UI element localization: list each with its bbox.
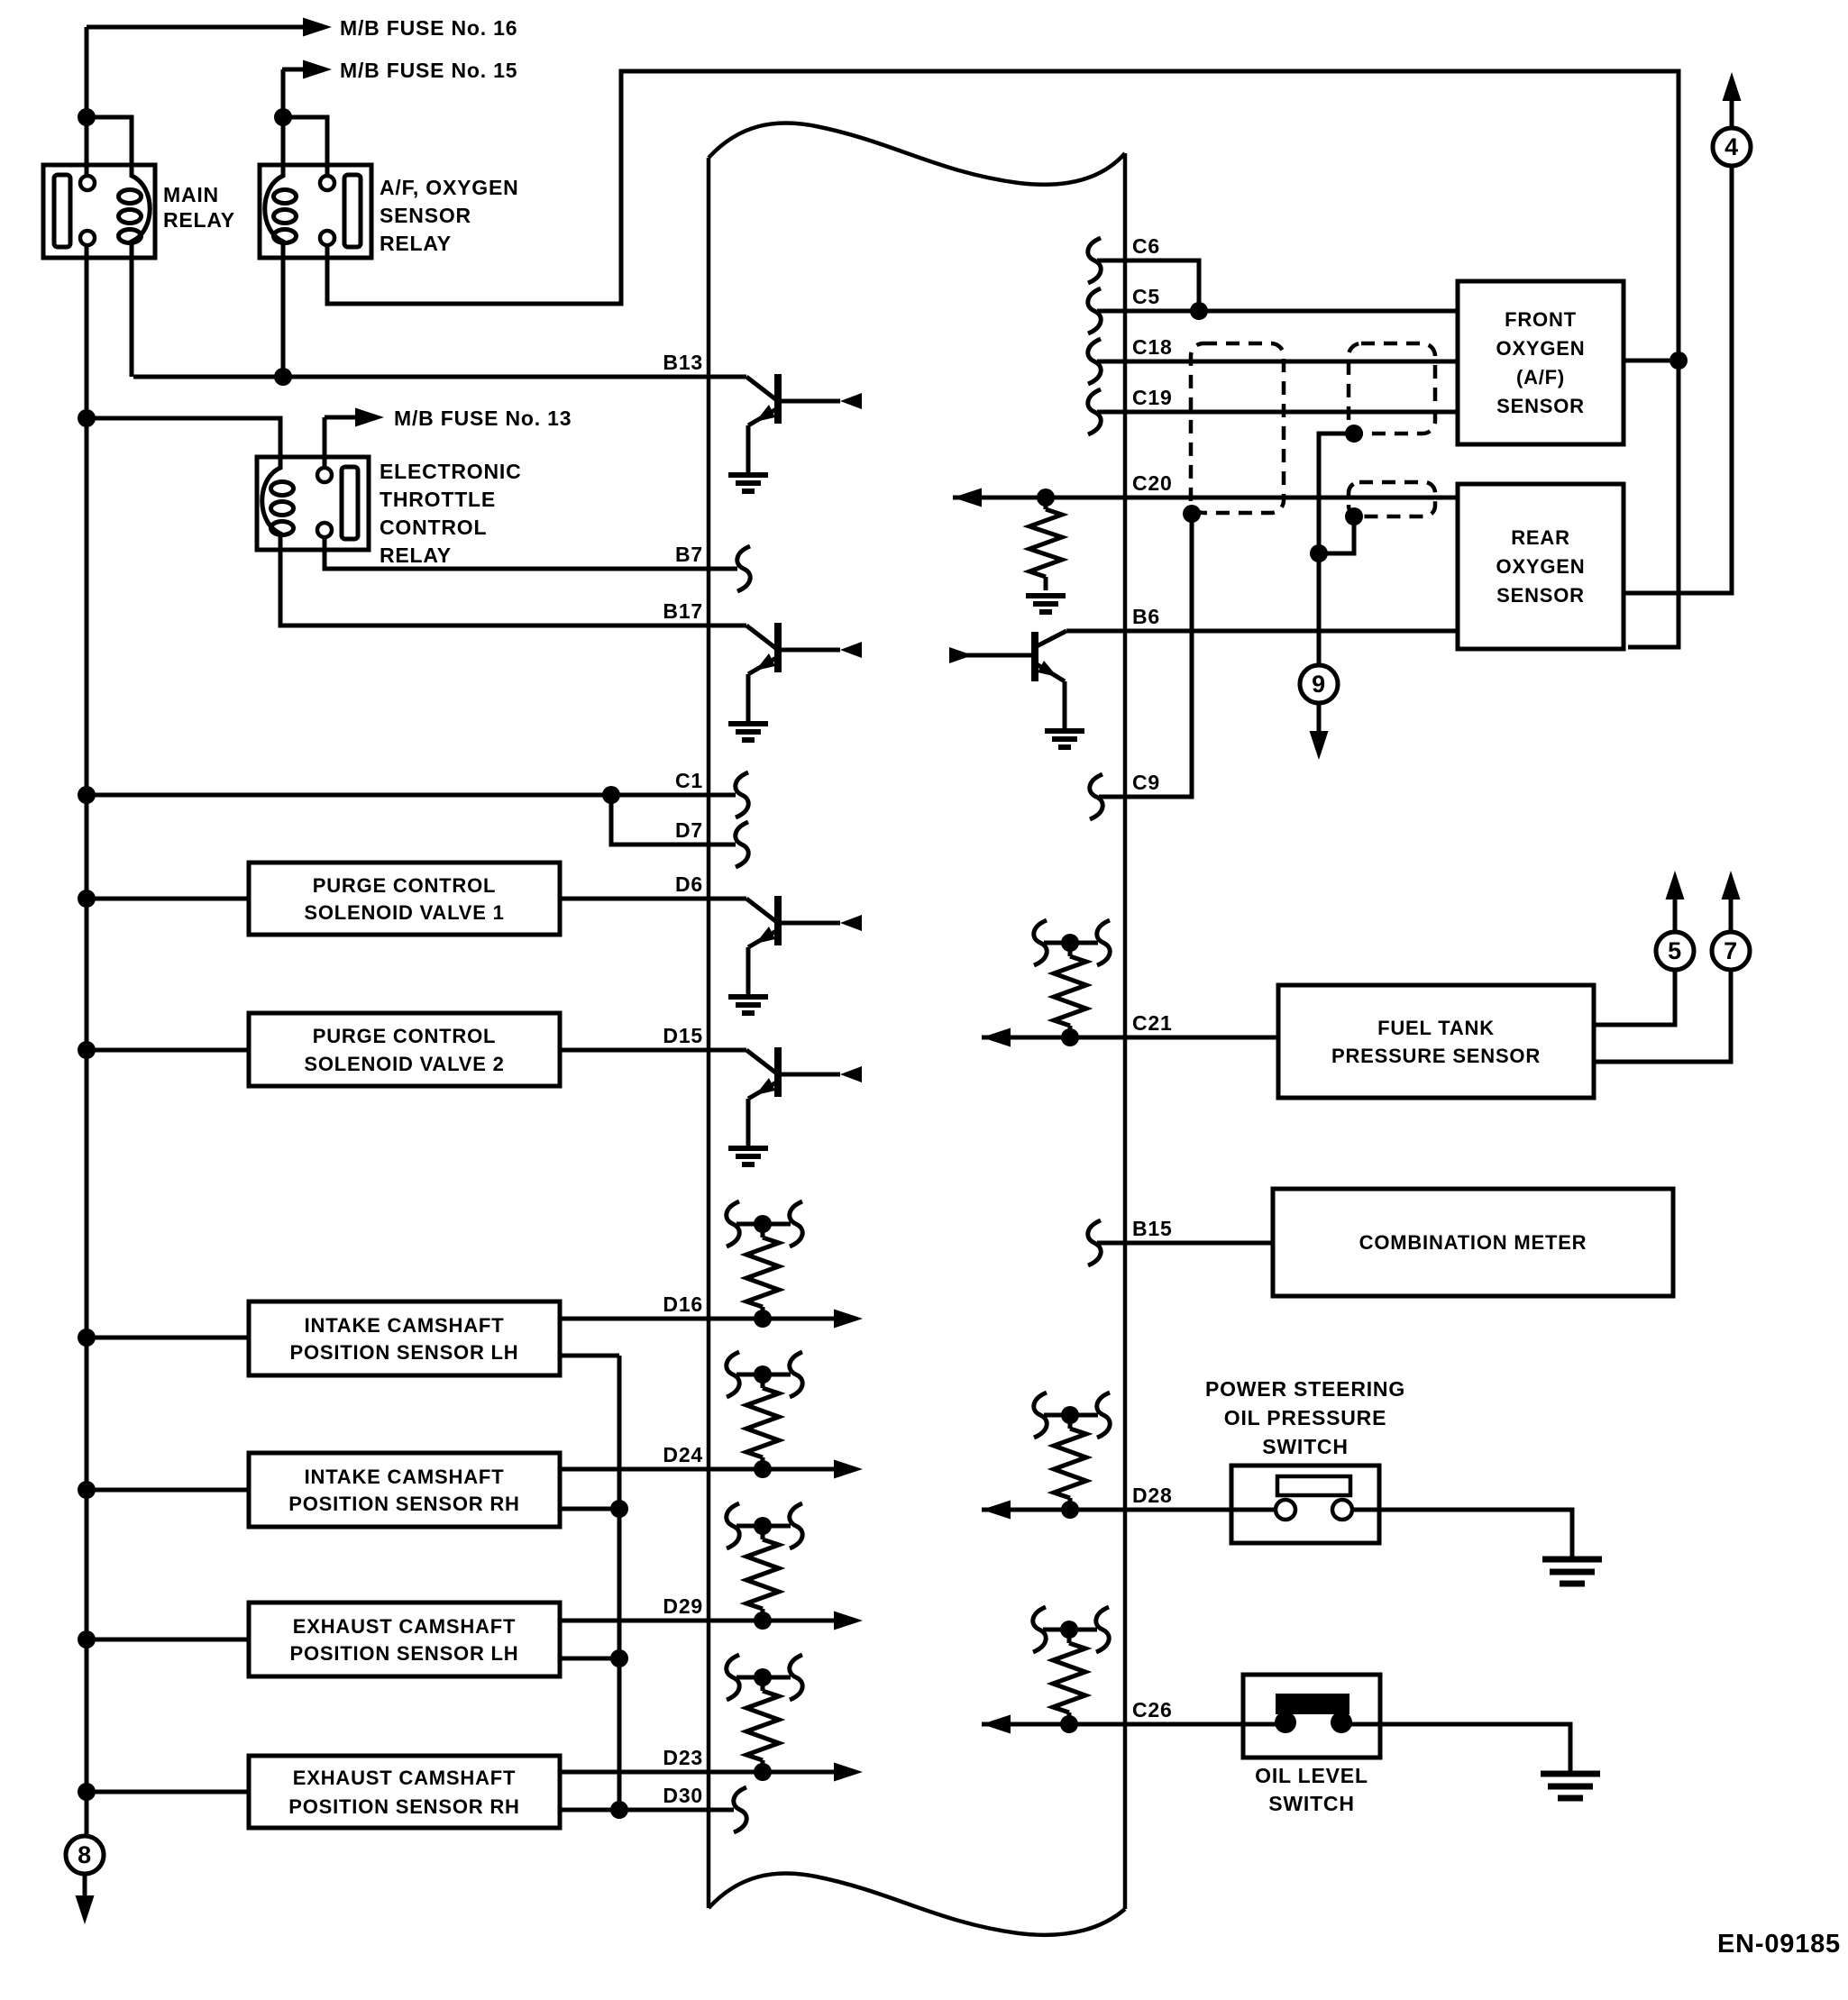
break C18 (1088, 339, 1101, 384)
junction bus/purge1 (78, 890, 96, 908)
junction C20/resistor (1037, 489, 1055, 507)
wire bus to exhaust camshaft RH (87, 1790, 249, 1795)
relay K1 MAIN RELAY box (43, 165, 155, 258)
wire B17 ETC coil to ECM (280, 534, 746, 626)
ground at oil level switch (1541, 1774, 1600, 1798)
svg-text:SWITCH: SWITCH (1268, 1792, 1355, 1815)
ground at C20 pulldown (1026, 596, 1066, 612)
svg-text:SOLENOID VALVE 2: SOLENOID VALVE 2 (304, 1053, 504, 1075)
break C5 (1088, 288, 1101, 333)
arrowhead ref7 (1722, 871, 1741, 900)
wire C20 to rear oxygen sensor (953, 496, 1458, 500)
ground at transistor Q4 (D15 driver) (728, 1148, 768, 1164)
wire intake LH return (560, 1354, 619, 1358)
wire front sensor heater supply (1624, 359, 1679, 363)
ECM boundary left (707, 158, 711, 1908)
resistor pull-up at D16 (727, 1201, 802, 1328)
wire left power bus (85, 27, 89, 1836)
transistor Q5 (B6 input, mirrored) (949, 631, 1066, 731)
svg-text:SOLENOID VALVE 1: SOLENOID VALVE 1 (304, 901, 504, 924)
svg-text:C18: C18 (1132, 335, 1173, 359)
arrowhead D24 (834, 1460, 863, 1479)
svg-text:C19: C19 (1132, 386, 1173, 409)
wire bus to intake camshaft RH (87, 1488, 249, 1493)
relay K3 ELECTRONIC THROTTLE CONTROL RELAY coil (262, 457, 280, 550)
arrowhead fuse16 (303, 18, 332, 37)
wire main relay coil to B13 (130, 258, 134, 377)
wire exhaust LH return (560, 1657, 619, 1661)
arrowhead C20 (953, 489, 982, 507)
svg-text:OIL PRESSURE: OIL PRESSURE (1224, 1406, 1386, 1429)
transistor Q2 (B17 driver) (746, 623, 862, 724)
svg-text:EXHAUST CAMSHAFT: EXHAUST CAMSHAFT (293, 1615, 516, 1638)
svg-text:PURGE CONTROL: PURGE CONTROL (313, 1025, 497, 1047)
arrowhead ref4 (1723, 72, 1742, 101)
wire D6 to ECM (560, 897, 746, 901)
junction A/F relay feed (274, 108, 292, 126)
svg-text:PRESSURE SENSOR: PRESSURE SENSOR (1331, 1045, 1541, 1067)
wire main relay coil feed (87, 117, 132, 165)
svg-text:INTAKE CAMSHAFT: INTAKE CAMSHAFT (305, 1314, 505, 1337)
junction bus/intake LH (78, 1329, 96, 1347)
wire A/F coil to B13 (281, 258, 286, 377)
svg-text:EXHAUST CAMSHAFT: EXHAUST CAMSHAFT (293, 1767, 516, 1789)
wire C26 to oil level switch (982, 1722, 1243, 1727)
svg-text:B17: B17 (663, 599, 703, 623)
svg-text:A/F, OXYGEN: A/F, OXYGEN (380, 176, 519, 199)
svg-text:PURGE CONTROL: PURGE CONTROL (313, 874, 497, 897)
svg-text:B13: B13 (663, 351, 703, 374)
wire bus to exhaust camshaft LH (87, 1638, 249, 1642)
wire bus to purge valve 2 (87, 1048, 249, 1053)
box COMBINATION METER (1273, 1189, 1673, 1296)
ECM boundary top wave (709, 123, 1125, 184)
wire sensor return bus (618, 1356, 622, 1810)
svg-text:OXYGEN: OXYGEN (1496, 555, 1586, 578)
svg-text:8: 8 (78, 1841, 92, 1868)
wire bus to purge valve 1 (87, 897, 249, 901)
relay K2 A/F OXYGEN SENSOR RELAY box (260, 165, 371, 258)
wire A/F relay coil feed (281, 69, 286, 165)
svg-text:(A/F): (A/F) (1516, 366, 1565, 388)
arrowhead D23 (834, 1763, 863, 1782)
box PURGE CONTROL SOLENOID VALVE 2 (249, 1013, 560, 1086)
transistor Q1 (B13 driver) (746, 374, 862, 475)
svg-text:D29: D29 (663, 1594, 703, 1618)
ground at transistor Q1 (B13 driver) (728, 475, 768, 491)
arrowhead fuse15 (303, 60, 332, 79)
wire to M/B fuse 15 (282, 68, 304, 72)
wire fuse 13 stub (325, 416, 357, 420)
svg-text:C20: C20 (1132, 471, 1173, 495)
svg-text:D6: D6 (675, 872, 703, 896)
svg-text:C1: C1 (675, 769, 703, 792)
svg-text:SWITCH: SWITCH (1262, 1435, 1349, 1458)
svg-text:POWER STEERING: POWER STEERING (1205, 1377, 1405, 1401)
svg-text:5: 5 (1668, 937, 1682, 964)
box EXHAUST CAMSHAFT POSITION SENSOR LH (249, 1603, 560, 1676)
page reference circle 9 shield ground (1300, 665, 1338, 703)
wire B13 to ECM (133, 375, 746, 379)
wire arrow stub ref4 (1730, 101, 1734, 127)
ground at transistor Q3 (D6 driver) (728, 997, 768, 1013)
ECM boundary bottom wave (709, 1873, 1125, 1934)
ground at transistor Q5 (1045, 731, 1084, 747)
break C1 (736, 772, 748, 817)
resistor pull-up at C26 (1033, 1607, 1109, 1733)
relay K1 MAIN RELAY coil (132, 165, 150, 258)
svg-text:C26: C26 (1132, 1698, 1173, 1721)
shield dashed box C18/C19 sensor side (1349, 343, 1435, 434)
wire bus to intake camshaft LH (87, 1336, 249, 1340)
box FRONT OXYGEN (A/F) SENSOR (1458, 281, 1624, 444)
junction bus/C1 (78, 786, 96, 804)
wire A/F contact to sensors supply (327, 71, 1679, 647)
wire D28 to power steering switch (982, 1508, 1231, 1512)
relay K2 A/F OXYGEN SENSOR RELAY coil (265, 165, 283, 258)
svg-text:C5: C5 (1132, 285, 1160, 308)
arrowhead ref9 (1310, 731, 1329, 760)
wire C5 to front oxygen sensor (1097, 309, 1458, 314)
resistor C20 pulldown (1029, 509, 1062, 577)
svg-text:M/B FUSE No. 16: M/B FUSE No. 16 (340, 16, 517, 40)
relay K2 A/F OXYGEN SENSOR RELAY contact (344, 175, 361, 247)
relay K3 ELECTRONIC THROTTLE CONTROL RELAY contact (342, 467, 358, 539)
svg-text:THROTTLE: THROTTLE (380, 488, 496, 511)
ground at transistor Q2 (B17 driver) (728, 724, 768, 740)
wire C6 stub (1097, 260, 1199, 311)
junction bus/ETC (78, 409, 96, 427)
wire D16 signal (560, 1317, 837, 1321)
svg-text:B7: B7 (675, 543, 703, 566)
resistor pull-up at C21 (1034, 920, 1110, 1046)
transistor Q4 (D15 driver) (746, 1047, 862, 1148)
wire B6 to rear oxygen sensor (1066, 629, 1458, 634)
wire C18 to front oxygen sensor (1097, 360, 1458, 364)
break B7 (737, 546, 750, 591)
box INTAKE CAMSHAFT POSITION SENSOR RH (249, 1453, 560, 1527)
ECM boundary right (1123, 153, 1128, 1909)
svg-text:POSITION SENSOR RH: POSITION SENSOR RH (288, 1493, 519, 1515)
wire shield drain C9 (1099, 514, 1192, 797)
svg-text:M/B FUSE No. 15: M/B FUSE No. 15 (340, 59, 517, 82)
wire D24 signal (560, 1467, 837, 1472)
break C6 (1088, 238, 1101, 283)
svg-text:C21: C21 (1132, 1011, 1173, 1035)
junction return/D30 (610, 1801, 628, 1819)
svg-text:CONTROL: CONTROL (380, 516, 487, 539)
junction shield D (1310, 544, 1328, 562)
wire ETC contact to fuse 13 (323, 417, 327, 468)
page reference circle 7 sensor ground ref (1712, 932, 1750, 970)
junction return/exhaust LH (610, 1649, 628, 1667)
wire rear sensor to page 4 (1624, 167, 1732, 593)
svg-text:D23: D23 (663, 1746, 703, 1769)
wire D15 to ECM (560, 1048, 746, 1053)
svg-text:RELAY: RELAY (380, 543, 452, 567)
junction B13 (274, 368, 292, 386)
svg-text:D7: D7 (675, 818, 703, 842)
wire fuel sensor to ref 5 (1594, 971, 1675, 1025)
junction shield A (1183, 505, 1201, 523)
box REAR OXYGEN SENSOR (1458, 484, 1624, 649)
arrowhead D28 (982, 1501, 1011, 1520)
resistor pull-up at D28 (1034, 1393, 1110, 1519)
page reference circle 5 sensor supply ref (1656, 932, 1694, 970)
svg-text:D15: D15 (663, 1024, 703, 1047)
svg-text:4: 4 (1724, 133, 1739, 160)
resistor pull-up at D23 (727, 1655, 802, 1781)
svg-text:POSITION SENSOR RH: POSITION SENSOR RH (288, 1795, 519, 1818)
svg-text:C6: C6 (1132, 234, 1160, 258)
wire arrow stub ref7 (1729, 900, 1734, 931)
svg-text:9: 9 (1312, 671, 1326, 698)
box FUEL TANK PRESSURE SENSOR (1278, 985, 1594, 1098)
junction shield B (1345, 425, 1363, 443)
box INTAKE CAMSHAFT POSITION SENSOR LH (249, 1301, 560, 1375)
svg-text:FUEL TANK: FUEL TANK (1377, 1017, 1495, 1039)
svg-text:B15: B15 (1132, 1217, 1173, 1240)
break D30 (734, 1787, 746, 1832)
svg-text:RELAY: RELAY (163, 208, 235, 232)
wire to ground ref 9 (1317, 704, 1322, 732)
svg-text:7: 7 (1724, 937, 1738, 964)
svg-text:M/B FUSE No. 13: M/B FUSE No. 13 (394, 406, 572, 430)
wire oil level switch to ground (1380, 1724, 1570, 1774)
switch S1 POWER STEERING OIL PRESSURE SWITCH (1231, 1466, 1379, 1543)
arrowhead D16 (834, 1310, 863, 1329)
page reference circle 8 bus continues (66, 1836, 104, 1874)
arrowhead ref8 (76, 1895, 95, 1924)
arrowhead fuse13 (355, 408, 384, 427)
wire fuel sensor to ref 7 (1594, 971, 1731, 1062)
arrowhead ref5 (1666, 871, 1685, 900)
svg-text:POSITION SENSOR LH: POSITION SENSOR LH (290, 1642, 519, 1665)
relay K1 MAIN RELAY contact (54, 175, 70, 247)
wire arrow stub ref5 (1673, 900, 1678, 931)
junction supply/front sensor (1670, 352, 1688, 370)
wire C19 to front oxygen sensor (1097, 410, 1458, 415)
svg-text:D16: D16 (663, 1292, 703, 1316)
wire D7 to ECM (611, 795, 736, 845)
svg-text:SENSOR: SENSOR (1496, 395, 1585, 417)
box EXHAUST CAMSHAFT POSITION SENSOR RH (249, 1756, 560, 1828)
break C9 (1090, 774, 1102, 819)
svg-text:EN-09185: EN-09185 (1717, 1930, 1841, 1959)
svg-text:SENSOR: SENSOR (380, 204, 471, 227)
resistor pull-up at D29 (727, 1503, 802, 1630)
svg-text:MAIN: MAIN (163, 183, 219, 206)
junction bus/intake RH (78, 1481, 96, 1499)
svg-text:INTAKE CAMSHAFT: INTAKE CAMSHAFT (305, 1466, 505, 1488)
junction return/intake RH (610, 1500, 628, 1518)
junction bus/exhaust LH (78, 1630, 96, 1648)
break B15 (1088, 1220, 1101, 1265)
wire A/F relay contact feed (283, 117, 327, 176)
svg-text:SENSOR: SENSOR (1496, 584, 1585, 607)
svg-text:B6: B6 (1132, 605, 1160, 628)
svg-text:D30: D30 (663, 1784, 703, 1807)
wire D23 signal (560, 1770, 837, 1775)
break C19 (1088, 389, 1101, 434)
wire B15 to combination meter (1097, 1241, 1273, 1246)
ground at power steering switch (1542, 1559, 1602, 1584)
break D7 (736, 822, 748, 867)
svg-text:OIL LEVEL: OIL LEVEL (1255, 1764, 1368, 1787)
svg-text:ELECTRONIC: ELECTRONIC (380, 460, 522, 483)
svg-text:OXYGEN: OXYGEN (1496, 337, 1586, 360)
junction main relay feed (78, 108, 96, 126)
shield dashed box C20 sensor side (1349, 482, 1435, 516)
wire B7 ETC contact to ECM (325, 537, 737, 569)
junction bus/exhaust RH (78, 1783, 96, 1801)
wire C21 to fuel tank pressure sensor (982, 1036, 1278, 1040)
junction bus/purge2 (78, 1041, 96, 1059)
wire C1 to ECM (87, 793, 736, 798)
resistor pull-up at D24 (727, 1352, 802, 1478)
wire power steering switch to ground (1379, 1510, 1572, 1559)
relay K3 ELECTRONIC THROTTLE CONTROL RELAY box (257, 457, 369, 550)
wire D29 signal (560, 1619, 837, 1623)
box PURGE CONTROL SOLENOID VALVE 1 (249, 863, 560, 935)
wire bus to ETC relay coil (87, 418, 280, 468)
svg-text:D24: D24 (663, 1443, 703, 1466)
svg-text:RELAY: RELAY (380, 232, 452, 255)
switch S2 OIL LEVEL SWITCH (1243, 1675, 1380, 1758)
wire bus arrow stub (83, 1875, 87, 1896)
svg-text:C9: C9 (1132, 771, 1160, 794)
transistor Q3 (D6 driver) (746, 896, 862, 997)
junction shield C (1345, 507, 1363, 525)
shield dashed box C18/C19 ECM side (1191, 343, 1284, 513)
arrowhead C21 (982, 1028, 1011, 1047)
wire intake RH return (560, 1507, 619, 1511)
wire shield drains to ground ref 9 (1319, 434, 1354, 664)
junction C6/C5 (1190, 302, 1208, 320)
junction C1/D7 (602, 786, 620, 804)
svg-text:POSITION SENSOR LH: POSITION SENSOR LH (290, 1341, 519, 1364)
arrowhead C26 (982, 1715, 1011, 1734)
svg-text:FRONT: FRONT (1505, 308, 1577, 331)
svg-text:REAR: REAR (1511, 526, 1570, 549)
svg-text:D28: D28 (1132, 1484, 1173, 1507)
arrowhead D29 (834, 1612, 863, 1630)
wire to M/B fuse 16 (87, 25, 304, 30)
page reference circle 4 battery ref (1713, 128, 1751, 166)
svg-text:COMBINATION METER: COMBINATION METER (1359, 1231, 1587, 1254)
wire D30 return to ECM (560, 1808, 734, 1813)
